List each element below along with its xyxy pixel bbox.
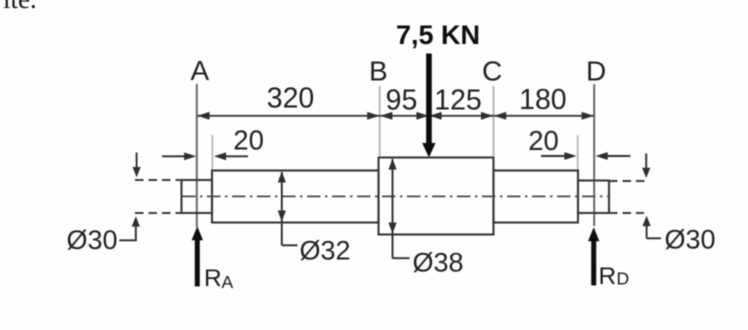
extension line A: [196, 84, 198, 228]
svg-text:C: C: [482, 56, 502, 87]
svg-text:R: R: [204, 265, 222, 292]
svg-text:125: 125: [434, 85, 482, 117]
reaction arrow RA: [195, 238, 200, 286]
dim arrows at C: [481, 112, 493, 120]
svg-text:7,5 KN: 7,5 KN: [396, 20, 480, 50]
extension line B: [379, 86, 381, 157]
svg-text:95: 95: [386, 85, 418, 117]
svg-text:B: B: [369, 56, 388, 87]
svg-text:20: 20: [528, 125, 559, 156]
shaft section left journal (D30): [182, 180, 213, 213]
left 20 dim arrow pointing left at shoulder: [224, 155, 248, 157]
centerline: [182, 195, 609, 197]
svg-text:180: 180: [519, 84, 567, 116]
extension line right 20: [577, 135, 579, 170]
reaction arrow RD: [591, 239, 596, 285]
right 20 dim arrow pointing right at shoulder: [541, 155, 566, 157]
svg-text:R: R: [599, 263, 617, 290]
shaft section D38: [379, 158, 494, 235]
D32 vertical dim: [281, 172, 283, 245]
left up arrow leader with D30 label: [135, 225, 137, 240]
D38 leader: [393, 257, 410, 259]
dim arrow at D: [582, 112, 594, 120]
svg-text:Ø38: Ø38: [413, 248, 464, 278]
left D30 top dashed line: [135, 179, 182, 181]
dim arrows at load line: [416, 112, 428, 120]
svg-text:Ø30: Ø30: [67, 225, 118, 255]
svg-text:D: D: [586, 56, 606, 87]
svg-text:320: 320: [267, 83, 315, 115]
shaft section D32: [212, 171, 379, 223]
extension line D: [593, 84, 595, 226]
svg-text:Ø30: Ø30: [665, 225, 716, 255]
dim arrows at B: [367, 112, 379, 120]
force arrow 7,5 KN: [426, 54, 432, 145]
right D30 bottom dashed line: [609, 212, 644, 214]
left D30 bottom dashed line: [135, 212, 182, 214]
right up arrow leader with D30 label: [646, 225, 648, 239]
right 20 dim arrow pointing left at D: [606, 155, 630, 157]
D38 vertical dim: [392, 159, 394, 258]
svg-text:20: 20: [233, 125, 264, 156]
extension line C: [493, 86, 495, 157]
left 20 dim arrow pointing right at A: [162, 155, 186, 157]
extension line left 20: [211, 135, 213, 170]
dimension line A-D: [197, 115, 594, 117]
left down arrow at dashed line: [136, 153, 138, 170]
svg-text:A: A: [222, 272, 234, 292]
svg-text:A: A: [190, 55, 209, 86]
svg-text:ite.: ite.: [3, 0, 37, 14]
svg-text:D: D: [617, 269, 630, 289]
right down arrow at dashed line: [645, 154, 647, 170]
shaft section right: [494, 171, 579, 223]
D32 leader: [282, 244, 298, 246]
svg-text:Ø32: Ø32: [300, 236, 351, 266]
dim arrow at A: [197, 112, 209, 120]
right D30 top dashed line: [609, 180, 645, 182]
shaft section right journal (D30): [578, 181, 609, 214]
